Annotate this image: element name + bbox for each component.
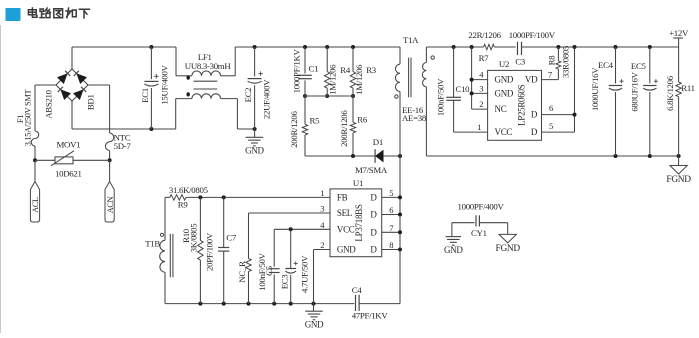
svg-text:D: D	[370, 192, 377, 202]
svg-text:FGND: FGND	[666, 175, 691, 185]
svg-text:1000PF/100V: 1000PF/100V	[509, 30, 556, 40]
svg-text:3K/0805: 3K/0805	[188, 223, 198, 253]
svg-text:6.8K/1206: 6.8K/1206	[665, 75, 675, 111]
svg-text:22UF/400V: 22UF/400V	[262, 79, 272, 119]
svg-text:680UF/16V: 680UF/16V	[629, 71, 639, 111]
svg-text:C3: C3	[515, 57, 526, 67]
svg-text:47PF/1KV: 47PF/1KV	[352, 310, 389, 320]
svg-text:R8: R8	[546, 55, 556, 66]
svg-text:15UF/400V: 15UF/400V	[160, 64, 170, 104]
svg-text:C7: C7	[226, 232, 237, 242]
svg-text:D: D	[531, 127, 538, 137]
svg-text:2: 2	[479, 99, 483, 109]
svg-text:U1: U1	[353, 178, 363, 188]
svg-text:3: 3	[320, 204, 324, 214]
svg-text:C10: C10	[456, 84, 471, 94]
svg-text:U2: U2	[499, 59, 509, 69]
svg-text:D1: D1	[373, 137, 383, 147]
svg-text:+12V: +12V	[669, 28, 689, 38]
svg-text:CY1: CY1	[471, 228, 487, 238]
svg-text:ACN: ACN	[106, 196, 115, 213]
svg-text:MOV1: MOV1	[57, 140, 81, 150]
svg-text:1M/1206: 1M/1206	[328, 64, 338, 95]
svg-text:5: 5	[389, 188, 393, 198]
svg-text:3: 3	[479, 83, 483, 93]
svg-text:2: 2	[320, 240, 324, 250]
svg-text:T1B: T1B	[145, 239, 160, 249]
svg-text:8: 8	[389, 240, 393, 250]
svg-text:R3: R3	[366, 65, 377, 75]
svg-text:200R/1206: 200R/1206	[289, 111, 299, 148]
svg-text:1: 1	[477, 122, 481, 132]
svg-text:SEL: SEL	[337, 208, 352, 218]
svg-text:1000PF/400V: 1000PF/400V	[458, 201, 505, 211]
svg-text:1: 1	[320, 188, 324, 198]
svg-text:FGND: FGND	[496, 244, 521, 254]
svg-text:R6: R6	[357, 114, 368, 124]
svg-text:5: 5	[549, 121, 553, 131]
svg-text:VD: VD	[525, 75, 538, 85]
svg-text:10D621: 10D621	[55, 169, 82, 179]
svg-text:FB: FB	[337, 192, 348, 202]
svg-text:1M/1206: 1M/1206	[354, 64, 364, 95]
svg-text:GND: GND	[337, 245, 356, 255]
svg-text:NC: NC	[495, 104, 507, 114]
svg-text:R4: R4	[340, 65, 351, 75]
svg-text:33R/0805: 33R/0805	[560, 45, 570, 78]
svg-text:20PF/100V: 20PF/100V	[204, 232, 214, 271]
svg-text:31.6K/0805: 31.6K/0805	[169, 185, 209, 195]
svg-text:BD1: BD1	[86, 94, 96, 110]
svg-text:GND: GND	[444, 245, 463, 255]
svg-text:D: D	[370, 210, 377, 220]
svg-text:EC2: EC2	[243, 88, 253, 103]
svg-text:100nF/50V: 100nF/50V	[435, 78, 445, 116]
svg-text:ABS210: ABS210	[44, 89, 54, 118]
svg-text:EC5: EC5	[631, 61, 647, 71]
svg-text:AE=38: AE=38	[402, 113, 427, 123]
svg-text:EC1: EC1	[140, 88, 150, 103]
svg-text:VCC: VCC	[495, 127, 513, 137]
svg-text:C4: C4	[352, 285, 363, 295]
svg-text:1000PF/1KV: 1000PF/1KV	[291, 48, 301, 93]
svg-text:C5: C5	[264, 265, 274, 276]
svg-text:EC3: EC3	[280, 274, 290, 290]
svg-text:LP3718BS: LP3718BS	[354, 204, 364, 241]
svg-text:4.7UF/50V: 4.7UF/50V	[300, 255, 310, 293]
svg-text:VCC: VCC	[337, 224, 355, 234]
svg-text:UU8.3-30mH: UU8.3-30mH	[185, 61, 232, 71]
svg-text:22R/1206: 22R/1206	[468, 30, 501, 40]
svg-text:EC4: EC4	[598, 60, 614, 70]
svg-text:R9: R9	[178, 199, 189, 209]
svg-text:NC_R: NC_R	[237, 261, 247, 283]
svg-text:D: D	[370, 245, 377, 255]
svg-text:GND: GND	[305, 320, 324, 330]
svg-text:ACL: ACL	[31, 197, 40, 213]
svg-text:3.15A/250V SMT: 3.15A/250V SMT	[24, 90, 33, 147]
svg-text:GND: GND	[495, 88, 514, 98]
svg-text:R11: R11	[681, 83, 694, 93]
svg-text:D: D	[370, 227, 377, 237]
svg-text:T1A: T1A	[403, 35, 419, 45]
svg-text:GND: GND	[245, 146, 264, 156]
svg-text:LP25R060S: LP25R060S	[516, 84, 526, 126]
svg-text:GND: GND	[495, 75, 514, 85]
svg-text:1000UF/16V: 1000UF/16V	[590, 67, 600, 111]
svg-text:5D-7: 5D-7	[114, 141, 132, 151]
svg-text:C1: C1	[309, 63, 319, 73]
svg-text:R5: R5	[310, 115, 321, 125]
svg-text:200R/1206: 200R/1206	[339, 110, 349, 147]
svg-text:R7: R7	[479, 53, 490, 63]
svg-text:M7/SMA: M7/SMA	[355, 165, 388, 175]
svg-text:D: D	[531, 110, 538, 120]
